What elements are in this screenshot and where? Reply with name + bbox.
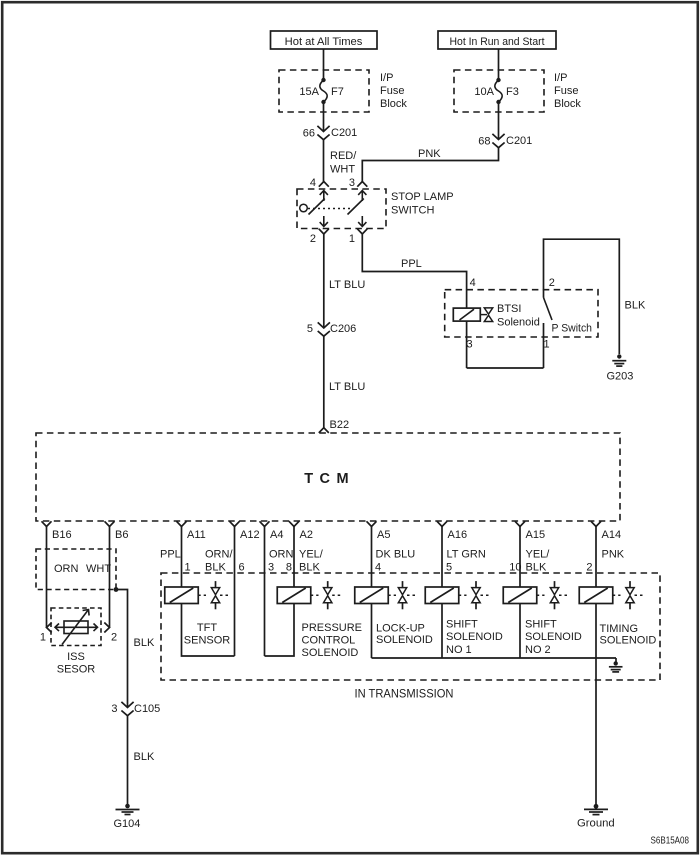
TCM pin A2: [289, 521, 313, 541]
timing solenoid valve: [626, 581, 646, 609]
svg-text:B16: B16: [52, 529, 72, 541]
svg-text:PPL: PPL: [160, 549, 181, 561]
svg-text:BTSI: BTSI: [497, 303, 521, 315]
svg-text:A11: A11: [187, 529, 206, 541]
BTSI solenoid coil: [453, 308, 487, 321]
TFT sensor coil: [165, 587, 206, 604]
fuse F3 10A: [474, 78, 518, 104]
TCM pin A14: [591, 521, 621, 541]
shift solenoid no 2 coil: [503, 587, 544, 604]
TCM pin B22: [319, 419, 349, 433]
label WHT (B6 wire): [86, 563, 111, 575]
wire: transmission ground bus: [372, 657, 617, 659]
svg-text:Fuse: Fuse: [554, 85, 578, 97]
fuse F7 15A: [299, 78, 343, 104]
timing solenoid coil: [579, 587, 620, 604]
label SHIFT SOLENOID NO 2: [525, 619, 582, 656]
wire BLK: P switch pin 2 to ground G203: [544, 239, 620, 354]
svg-text:TIMING: TIMING: [600, 623, 639, 635]
svg-text:WHT: WHT: [86, 563, 111, 575]
svg-text:BLK: BLK: [205, 562, 226, 574]
svg-text:PPL: PPL: [401, 258, 422, 270]
wire: fuse F3 to connector C201: [498, 102, 500, 140]
label TFT SENSOR: [184, 622, 231, 647]
svg-text:SHIFT: SHIFT: [446, 619, 478, 631]
svg-text:4: 4: [310, 177, 316, 189]
svg-text:S6B15A08: S6B15A08: [651, 836, 690, 847]
wire BLK: splice to connector C105: [116, 590, 128, 708]
svg-text:15A: 15A: [299, 86, 319, 98]
svg-text:Block: Block: [380, 98, 407, 110]
ISS sensor pin 1: [40, 623, 52, 644]
svg-text:NO 1: NO 1: [446, 644, 472, 656]
svg-text:SOLENOID: SOLENOID: [600, 635, 657, 647]
lock-up solenoid pin 4 label: [375, 562, 381, 574]
svg-text:B6: B6: [115, 529, 128, 541]
svg-text:2: 2: [111, 632, 117, 644]
svg-text:SOLENOID: SOLENOID: [302, 647, 359, 659]
ground G104: [114, 804, 141, 830]
label BTSI Solenoid: [497, 303, 540, 329]
BTSI/P-switch box pin 4 label: [470, 277, 476, 289]
svg-text:Ground: Ground: [577, 818, 615, 830]
svg-text:LT BLU: LT BLU: [329, 381, 365, 393]
stop lamp switch pin 3: [349, 177, 367, 189]
wire: bottom loop pin 3 to pin 1: [467, 367, 544, 369]
label RED/WHT: [330, 150, 357, 176]
timing solenoid pin 2 label: [586, 562, 592, 574]
svg-text:F7: F7: [331, 86, 344, 98]
BTSI solenoid valve: [484, 308, 492, 322]
wire YEL/BLK: TCM A2 to pressure control solenoid: [293, 527, 295, 588]
TCM pin A4: [260, 521, 284, 541]
ground (transmission, bottom right): [577, 804, 615, 830]
svg-text:ORN: ORN: [269, 549, 294, 561]
connector C105 pin 3: [111, 702, 160, 716]
stop lamp switch pin 4: [310, 177, 329, 189]
svg-text:1: 1: [40, 632, 46, 644]
power label "Hot at All Times": [271, 31, 378, 49]
svg-text:LT GRN: LT GRN: [447, 549, 486, 561]
svg-text:YEL/: YEL/: [526, 549, 551, 561]
svg-text:IN TRANSMISSION: IN TRANSMISSION: [355, 686, 454, 700]
wire: fuse F7 to connector C201: [323, 102, 325, 132]
svg-text:A12: A12: [240, 529, 260, 541]
svg-text:BLK: BLK: [625, 300, 646, 312]
svg-text:BLK: BLK: [299, 562, 320, 574]
TCM pin B16: [42, 521, 72, 541]
svg-text:4: 4: [375, 562, 381, 574]
wire LT BLU: stop lamp switch pin 2 to C206: [323, 234, 325, 328]
wire PNK: C201 to stop lamp switch pin 3: [362, 148, 498, 182]
shift solenoid no 2 valve: [550, 581, 570, 609]
wire: BTSI solenoid coil to box pin 3: [466, 321, 468, 368]
stop lamp switch actuator O: [300, 204, 308, 212]
TCM pin A11: [177, 521, 206, 541]
wire LT BLU: C206 to TCM pin B22: [323, 336, 325, 428]
ISS sensor variable resistor element: [55, 610, 98, 645]
svg-text:2: 2: [549, 277, 555, 289]
TFT sensor pin 1 label: [185, 562, 191, 574]
harness boundary (ORN/WHT) outline: [36, 549, 116, 590]
TCM pin B6: [105, 521, 129, 541]
svg-text:4: 4: [470, 277, 476, 289]
connector C201 pin 68: [478, 134, 532, 148]
TCM pin A16: [437, 521, 467, 541]
svg-text:LOCK-UP: LOCK-UP: [376, 623, 425, 635]
label I/P Fuse Block (right): [554, 72, 581, 110]
caption S6B15A08: [651, 836, 690, 847]
pressure control solenoid valve: [324, 581, 344, 609]
wire: stop lamp switch pin 1 to PPL junction: [362, 234, 466, 290]
wire: pressure control solenoid return loop: [265, 604, 295, 657]
label DK BLU: [376, 549, 416, 561]
wire WHT: TCM B6 to ISS sensor pin 2: [109, 527, 111, 628]
label BLK (above C105): [134, 637, 155, 649]
ground G203: [607, 354, 634, 382]
wire BLK: C105 to ground G104: [127, 716, 129, 806]
svg-text:3: 3: [349, 177, 355, 189]
wire: lock-up solenoid to ground bus: [371, 604, 373, 659]
svg-text:TFT: TFT: [197, 622, 217, 634]
stop lamp switch pin 2: [310, 229, 329, 245]
svg-text:BLK: BLK: [134, 637, 155, 649]
svg-text:C201: C201: [331, 127, 357, 139]
svg-text:SWITCH: SWITCH: [391, 205, 434, 217]
svg-text:G203: G203: [607, 371, 634, 383]
svg-text:Solenoid: Solenoid: [497, 317, 540, 329]
svg-text:1: 1: [544, 339, 550, 351]
svg-text:10: 10: [509, 562, 521, 574]
svg-text:Fuse: Fuse: [380, 85, 404, 97]
wire: timing solenoid ground leg to Ground: [595, 658, 597, 806]
svg-text:LT BLU: LT BLU: [329, 279, 365, 291]
wire: P switch pin 1 leg: [543, 323, 545, 368]
label ORN: [269, 549, 294, 561]
pressure control solenoid coil: [277, 587, 318, 604]
svg-text:3: 3: [268, 562, 274, 574]
wire LT GRN: TCM A16 to shift solenoid no 1: [441, 527, 443, 588]
label YEL/BLK (A2): [299, 549, 324, 574]
wire: TFT sensor return loop: [182, 604, 235, 657]
label PNK (A14): [602, 549, 625, 561]
wire: Hot at All Times feed to fuse F7: [323, 49, 325, 80]
wire YEL/BLK: TCM A15 to shift solenoid no 2: [519, 527, 521, 588]
wire ORN: TCM A4 to pressure control solenoid return: [264, 527, 266, 657]
svg-text:A14: A14: [602, 529, 622, 541]
svg-text:SENSOR: SENSOR: [184, 635, 231, 647]
label P Switch: [552, 323, 593, 335]
svg-text:G104: G104: [114, 818, 141, 830]
pressure control solenoid pin 3 label: [268, 562, 274, 574]
label LT GRN: [447, 549, 486, 561]
label SHIFT SOLENOID NO 1: [446, 619, 503, 656]
svg-text:WHT: WHT: [330, 164, 355, 176]
label ORN/BLK: [205, 549, 233, 574]
wire ORN/BLK: TCM A12 to TFT sensor return: [234, 527, 236, 657]
P switch pin 2 label: [549, 277, 555, 289]
TCM pin A15: [515, 521, 545, 541]
BTSI box pin 1 label: [544, 339, 550, 351]
label LT BLU (lower): [329, 381, 365, 393]
label LT BLU (upper): [329, 279, 365, 291]
wire: shift solenoid no 2 to ground bus: [519, 604, 521, 659]
svg-text:6: 6: [239, 562, 245, 574]
shift solenoid no 1 pin 5 label: [446, 562, 452, 574]
svg-text:BLK: BLK: [526, 562, 547, 574]
label BLK (G203 run): [625, 300, 646, 312]
svg-text:PNK: PNK: [602, 549, 625, 561]
stop lamp switch contact arrow (left lower): [320, 216, 328, 227]
svg-text:A15: A15: [526, 529, 546, 541]
P switch blade: [544, 298, 553, 321]
svg-text:A16: A16: [448, 529, 468, 541]
I/P Fuse Block (left) outline: [279, 70, 369, 112]
svg-text:1: 1: [349, 233, 355, 245]
svg-text:8: 8: [286, 562, 292, 574]
TCM outline: [36, 433, 620, 521]
lock-up solenoid coil: [355, 587, 396, 604]
svg-text:ISS: ISS: [67, 651, 85, 663]
stop lamp switch blade (right): [348, 199, 364, 215]
svg-text:I/P: I/P: [380, 72, 393, 84]
connector C206 pin 5: [307, 322, 356, 336]
wire PPL: TCM A11 to TFT sensor: [181, 527, 183, 588]
svg-text:DK BLU: DK BLU: [376, 549, 416, 561]
svg-text:I/P: I/P: [554, 72, 567, 84]
svg-text:1: 1: [185, 562, 191, 574]
stop lamp switch contact arrow (right upper): [358, 191, 366, 202]
wire RED/WHT: C201 to stop lamp switch pin 4: [323, 140, 325, 182]
TCM pin A12: [230, 521, 260, 541]
wire PNK: TCM A14 to timing solenoid: [595, 527, 597, 588]
shift solenoid no 1 valve: [472, 581, 492, 609]
svg-text:SHIFT: SHIFT: [525, 619, 557, 631]
svg-text:RED/: RED/: [330, 150, 357, 162]
svg-text:3: 3: [467, 339, 473, 351]
ISS sensor pin 2: [104, 623, 117, 644]
svg-text:SOLENOID: SOLENOID: [525, 631, 582, 643]
stop lamp switch linkage (dotted): [308, 208, 354, 210]
label STOP LAMP SWITCH: [391, 191, 454, 217]
svg-text:5: 5: [307, 323, 313, 335]
svg-text:T C M: T C M: [304, 471, 349, 487]
svg-text:CONTROL: CONTROL: [302, 635, 356, 647]
svg-text:SOLENOID: SOLENOID: [446, 631, 503, 643]
svg-text:P Switch: P Switch: [552, 323, 593, 335]
svg-text:A5: A5: [377, 529, 390, 541]
stop lamp switch pin 1: [349, 229, 367, 245]
svg-text:BLK: BLK: [134, 751, 155, 763]
svg-text:Block: Block: [554, 98, 581, 110]
svg-text:ORN/: ORN/: [205, 549, 233, 561]
svg-text:STOP LAMP: STOP LAMP: [391, 191, 454, 203]
BTSI box pin 3 label: [467, 339, 473, 351]
svg-text:10A: 10A: [474, 86, 494, 98]
label BLK (below C105): [134, 751, 155, 763]
svg-text:5: 5: [446, 562, 452, 574]
wire: timing solenoid to ground bus: [595, 604, 597, 659]
wire: ground bus stub to case ground: [615, 658, 617, 662]
shift solenoid no 2 pin 10 label: [509, 562, 521, 574]
stop lamp switch outline: [297, 189, 386, 229]
svg-text:A4: A4: [270, 529, 283, 541]
svg-text:SOLENOID: SOLENOID: [376, 634, 433, 646]
stop lamp switch contact arrow (right lower): [358, 216, 366, 227]
wire: P switch pin 2 from ground run: [543, 290, 545, 298]
svg-text:F3: F3: [506, 86, 519, 98]
TFT sensor pin 6 label: [239, 562, 245, 574]
connector C201 pin 66: [303, 126, 358, 140]
label PNK: [418, 148, 441, 160]
BTSI solenoid and park switch outline: [445, 290, 598, 337]
label TIMING SOLENOID: [600, 623, 657, 647]
wire ORN: TCM B16 to ISS sensor pin 1: [46, 527, 48, 628]
pressure control solenoid pin 8 label: [286, 562, 292, 574]
label LOCK-UP SOLENOID: [376, 623, 433, 647]
wire: Hot In Run and Start feed to fuse F3: [498, 49, 500, 80]
transmission boundary outline: [161, 573, 660, 680]
power label "Hot In Run and Start": [438, 31, 556, 49]
svg-text:66: 66: [303, 128, 315, 140]
transmission case ground: [609, 661, 623, 672]
label PRESSURE CONTROL SOLENOID: [302, 622, 363, 659]
stop lamp switch contact arrow (left upper): [320, 191, 328, 202]
label YEL/BLK (A15): [526, 549, 551, 574]
svg-text:ORN: ORN: [54, 563, 79, 575]
svg-text:C201: C201: [506, 135, 532, 147]
svg-text:Hot In Run and Start: Hot In Run and Start: [450, 36, 546, 48]
lock-up solenoid valve: [398, 581, 418, 609]
svg-text:68: 68: [478, 136, 490, 148]
label I/P Fuse Block (left): [380, 72, 407, 110]
TCM pin A5: [367, 521, 391, 541]
ISS sensor outline: [51, 608, 101, 646]
TFT sensor valve: [211, 581, 231, 609]
svg-text:PRESSURE: PRESSURE: [302, 622, 363, 634]
svg-text:C105: C105: [134, 703, 160, 715]
I/P Fuse Block (right) outline: [454, 70, 544, 112]
label PPL: [401, 258, 422, 270]
shift solenoid no 1 coil: [425, 587, 466, 604]
svg-text:2: 2: [310, 233, 316, 245]
svg-text:2: 2: [586, 562, 592, 574]
wire: BTSI box pin 4 to solenoid coil: [466, 290, 468, 308]
wire DK BLU: TCM A5 to lock-up solenoid: [371, 527, 373, 588]
junction: BLK splice at harness box: [114, 587, 119, 592]
svg-text:NO 2: NO 2: [525, 644, 551, 656]
svg-text:A2: A2: [300, 529, 313, 541]
svg-text:B22: B22: [330, 419, 350, 431]
label ISS SESOR: [57, 651, 96, 675]
TCM label: [304, 471, 349, 487]
svg-text:Hot at All Times: Hot at All Times: [285, 36, 363, 48]
label ORN (B16 wire): [54, 563, 79, 575]
svg-text:SESOR: SESOR: [57, 663, 96, 675]
svg-text:C206: C206: [330, 323, 356, 335]
stop lamp switch blade (left): [309, 199, 325, 215]
svg-text:YEL/: YEL/: [299, 549, 324, 561]
svg-text:3: 3: [111, 703, 117, 715]
svg-text:PNK: PNK: [418, 148, 441, 160]
wire: shift solenoid no 1 to ground bus: [441, 604, 443, 659]
label IN TRANSMISSION: [355, 686, 454, 700]
label PPL (A11): [160, 549, 181, 561]
